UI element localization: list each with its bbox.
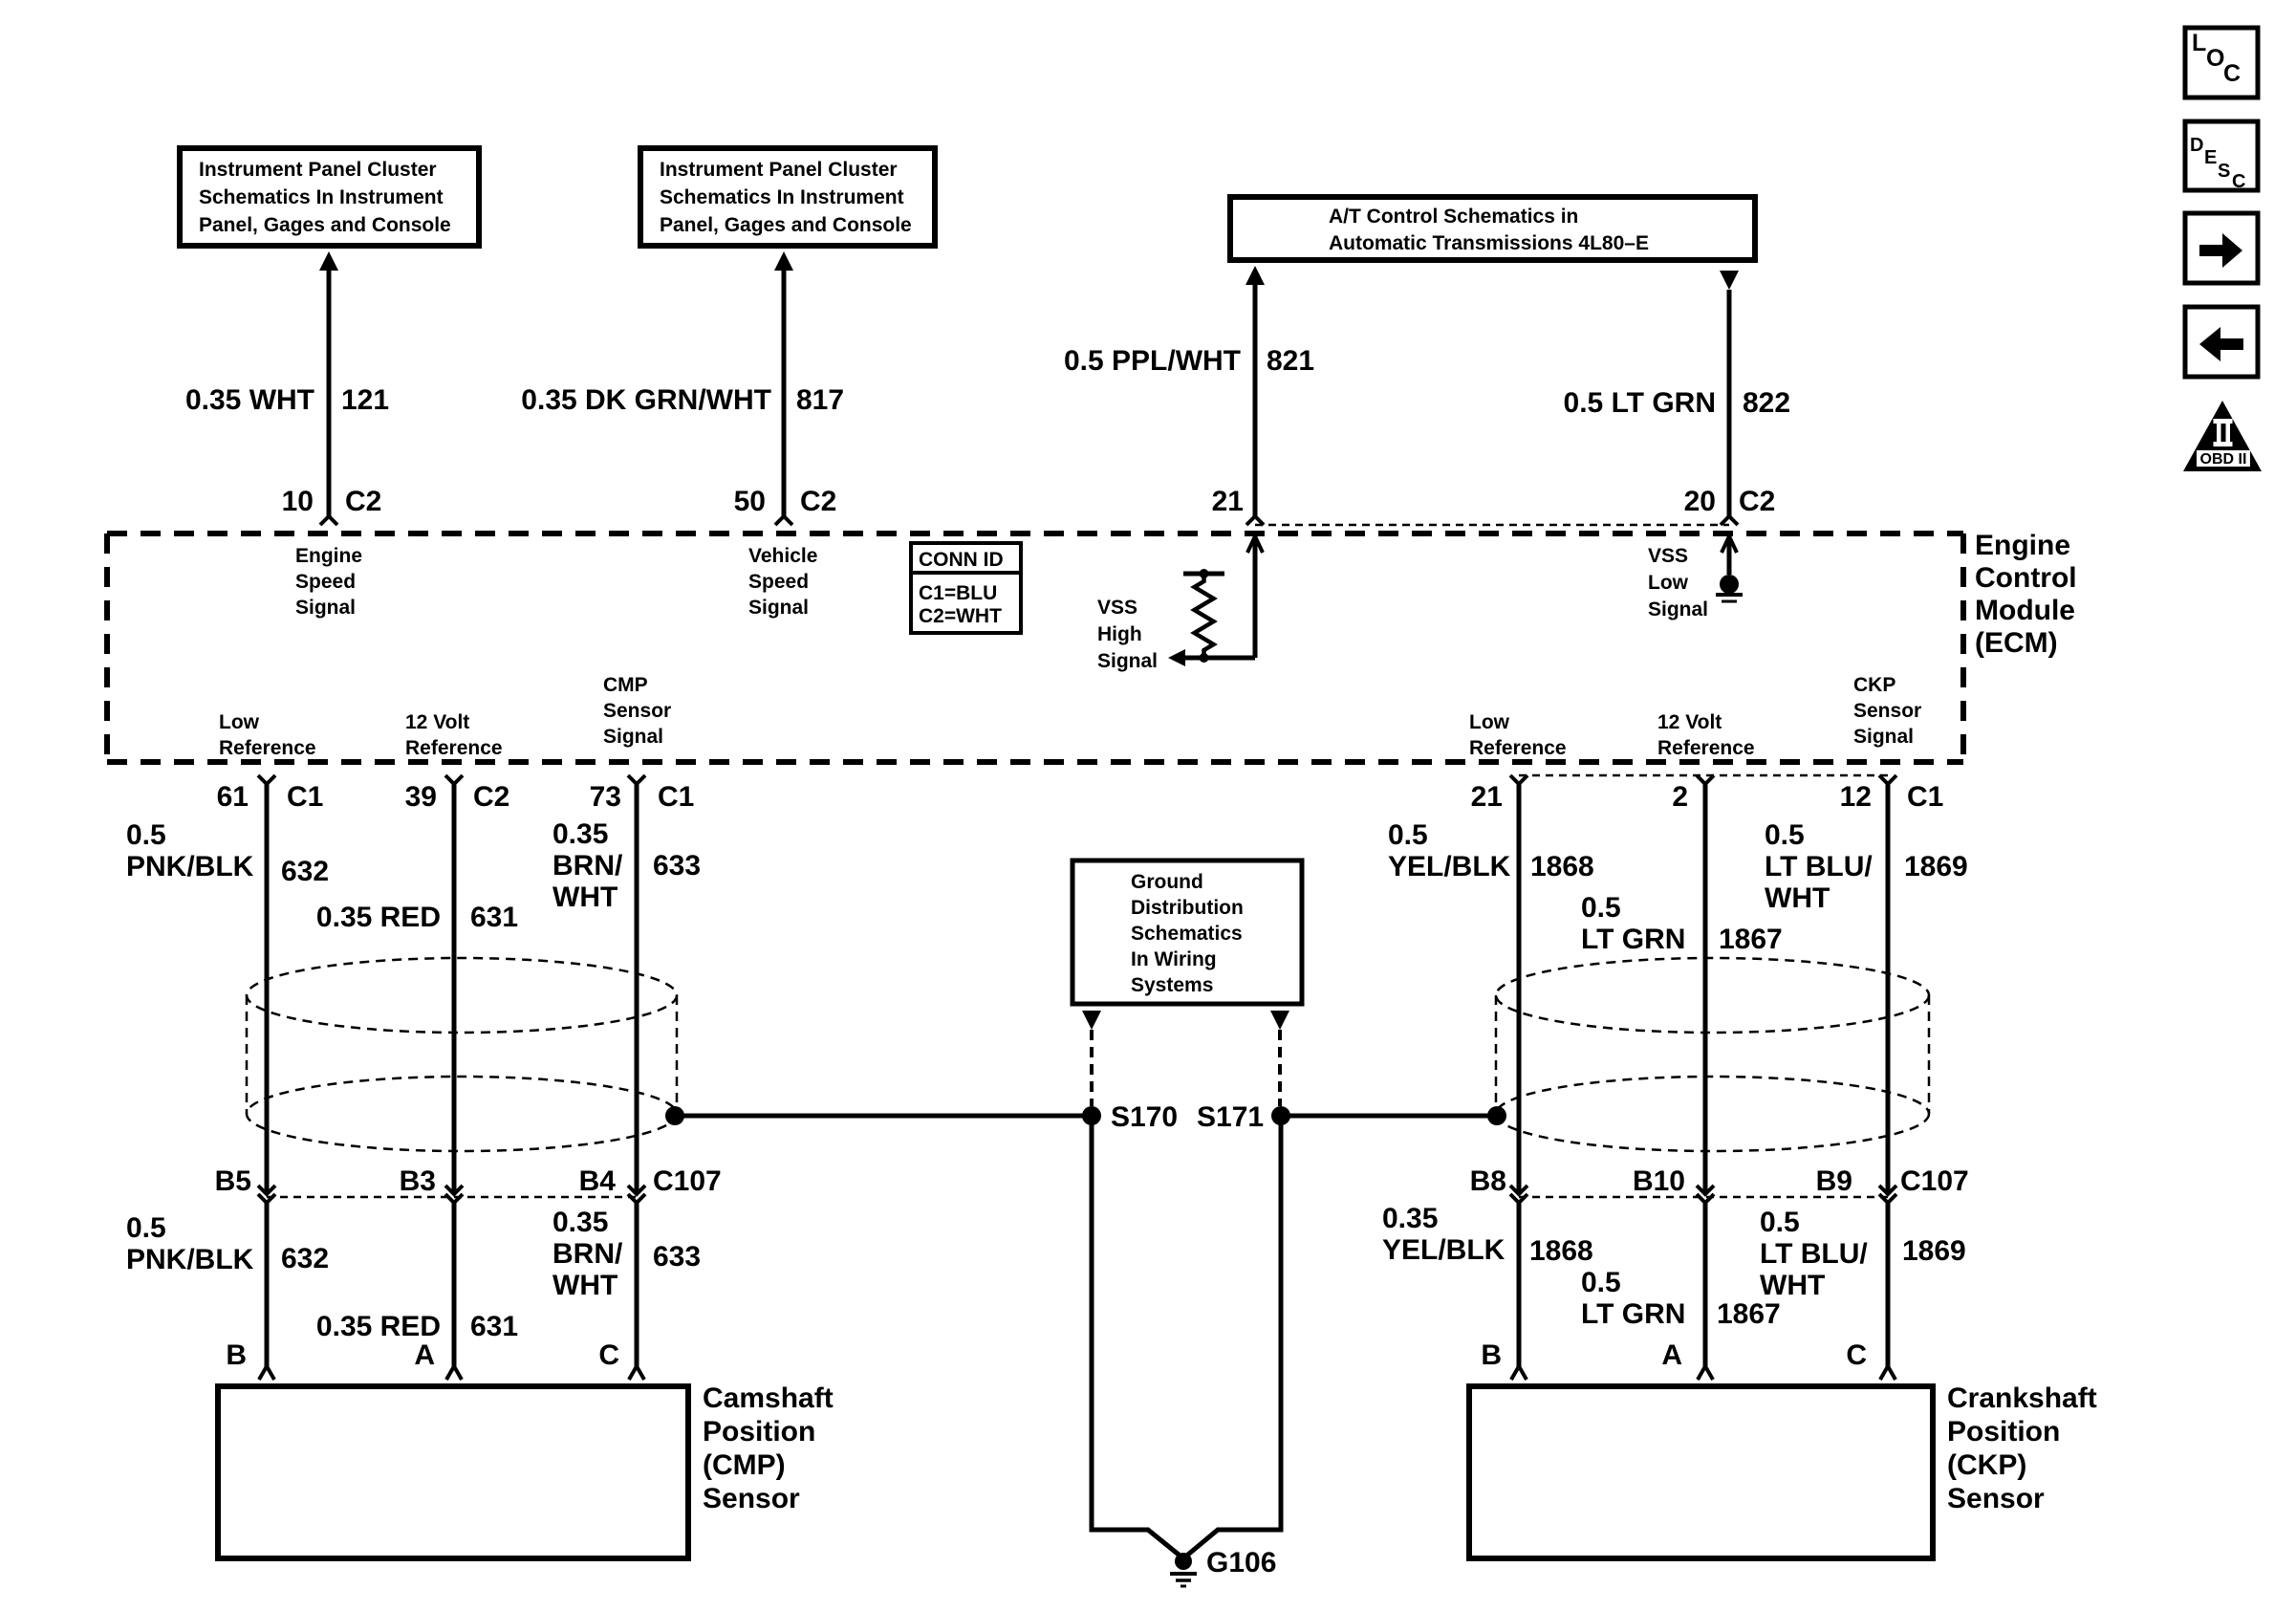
svg-text:LT BLU/: LT BLU/ xyxy=(1765,851,1873,882)
label VSS High Signal xyxy=(1097,597,1158,672)
pin C1 label (61) xyxy=(287,781,323,813)
label 1868 (upper) xyxy=(1530,851,1594,882)
svg-text:0.35: 0.35 xyxy=(552,818,608,850)
wire 1868 lower segment xyxy=(1517,1203,1522,1366)
svg-text:1868: 1868 xyxy=(1529,1235,1593,1267)
svg-text:0.35 RED: 0.35 RED xyxy=(316,1311,441,1342)
svg-text:Signal: Signal xyxy=(603,726,663,748)
icon box LOC xyxy=(2185,28,2258,98)
svg-text:Low: Low xyxy=(219,711,260,733)
svg-text:B9: B9 xyxy=(1816,1165,1852,1197)
svg-text:PNK/BLK: PNK/BLK xyxy=(126,851,254,882)
svg-text:C: C xyxy=(1846,1339,1867,1371)
svg-text:S171: S171 xyxy=(1197,1101,1264,1133)
connector chevron CKP wire 1867 xyxy=(1698,1366,1713,1380)
label 633 (lower) xyxy=(653,1241,701,1273)
wire 1869 upper segment xyxy=(1886,784,1891,1194)
connector chevron ECM bottom wire 633 xyxy=(628,775,645,784)
label 817 xyxy=(796,384,844,416)
svg-text:VSS: VSS xyxy=(1648,545,1688,567)
pin C2 label (wire 817) xyxy=(800,486,836,517)
svg-text:817: 817 xyxy=(796,384,844,416)
svg-text:WHT: WHT xyxy=(552,1270,617,1301)
svg-text:Signal: Signal xyxy=(748,597,809,619)
label G106 xyxy=(1206,1547,1276,1578)
svg-text:Reference: Reference xyxy=(219,737,316,759)
label 1867 (lower) xyxy=(1717,1298,1781,1330)
svg-text:12 Volt: 12 Volt xyxy=(405,711,469,733)
label 0.35 RED (lower) xyxy=(316,1311,441,1342)
svg-text:10: 10 xyxy=(282,486,314,517)
svg-text:E: E xyxy=(2204,147,2217,168)
wire 1867 lower segment xyxy=(1703,1203,1708,1366)
dashed connector line C107 (left) xyxy=(267,1196,637,1199)
wire 1867 upper segment xyxy=(1703,784,1708,1194)
svg-text:(CMP): (CMP) xyxy=(703,1449,786,1481)
label S171 xyxy=(1197,1101,1264,1133)
svg-text:50: 50 xyxy=(734,486,766,517)
svg-text:0.5 PPL/WHT: 0.5 PPL/WHT xyxy=(1064,345,1241,377)
connector chevron ECM bottom wire 1868 xyxy=(1510,775,1527,784)
junction dot left cylinder xyxy=(665,1106,684,1125)
svg-text:CONN ID: CONN ID xyxy=(919,549,1004,571)
connector chevron CKP wire 1868 xyxy=(1511,1366,1527,1380)
svg-text:1867: 1867 xyxy=(1719,924,1783,955)
label CMP Sensor Signal xyxy=(603,674,671,748)
svg-text:OBD II: OBD II xyxy=(2200,451,2247,468)
wire 633 lower segment xyxy=(635,1203,639,1366)
svg-text:B8: B8 xyxy=(1470,1165,1506,1197)
ground G106 symbol xyxy=(1170,1553,1197,1586)
svg-text:Automatic Transmissions 4L80–E: Automatic Transmissions 4L80–E xyxy=(1329,232,1649,254)
svg-text:Signal: Signal xyxy=(1648,599,1708,620)
svg-text:B3: B3 xyxy=(400,1165,436,1197)
arrow to ground dist box (left) xyxy=(1082,1011,1101,1030)
label 0.5 PNK/BLK (upper) xyxy=(126,819,254,882)
arrow to ground dist box (right) xyxy=(1270,1011,1289,1030)
connector chevron CMP wire 631 xyxy=(446,1366,462,1380)
dashed wire S171 to box xyxy=(1278,1030,1282,1106)
label Camshaft Position (CMP) Sensor xyxy=(703,1382,834,1514)
svg-text:2: 2 xyxy=(1672,781,1688,813)
svg-text:BRN/: BRN/ xyxy=(552,1238,623,1270)
svg-text:High: High xyxy=(1097,623,1142,645)
label 0.5 LT BLU/WHT (lower) xyxy=(1760,1207,1868,1301)
label 0.5 LT GRN (upper) xyxy=(1581,892,1685,955)
wire S170 to G106 xyxy=(1092,1116,1183,1558)
svg-text:0.5: 0.5 xyxy=(1581,892,1621,924)
icon OBD II triangle xyxy=(2183,401,2262,471)
label Engine Speed Signal xyxy=(295,545,362,619)
connector C107 chevrons wire 1867 xyxy=(1697,1186,1714,1203)
svg-text:Engine: Engine xyxy=(1975,530,2070,561)
dashed wire S170 to box xyxy=(1090,1030,1094,1106)
label 1867 (upper) xyxy=(1719,924,1783,955)
svg-text:0.35: 0.35 xyxy=(552,1207,608,1238)
box A/T Control Schematics xyxy=(1230,197,1755,260)
CONN ID box xyxy=(911,543,1021,633)
pin 61 label xyxy=(217,781,249,813)
svg-text:Panel, Gages and Console: Panel, Gages and Console xyxy=(199,214,451,236)
wire 1868 upper segment xyxy=(1517,784,1522,1194)
svg-text:C107: C107 xyxy=(1900,1165,1969,1197)
wire 822 (0.5 LT GRN) xyxy=(1727,290,1732,516)
svg-text:C1: C1 xyxy=(287,781,323,813)
label 0.5 PNK/BLK (lower) xyxy=(126,1212,254,1275)
label Low Reference (right) xyxy=(1469,711,1567,759)
svg-text:BRN/: BRN/ xyxy=(552,850,623,882)
pin C2 label (wire 121) xyxy=(345,486,381,517)
svg-text:(CKP): (CKP) xyxy=(1947,1449,2026,1481)
wire 633 upper segment xyxy=(635,784,639,1194)
shield cylinder left xyxy=(247,958,677,1151)
internal wire pin 21 xyxy=(1185,536,1263,658)
wire S171 to right cylinder xyxy=(1281,1114,1497,1119)
svg-text:Position: Position xyxy=(1947,1416,2060,1448)
svg-text:12: 12 xyxy=(1840,781,1872,813)
svg-text:Ground: Ground xyxy=(1131,871,1203,893)
label C107 (right) xyxy=(1900,1165,1969,1197)
wire 631 upper segment xyxy=(452,784,457,1194)
svg-text:WHT: WHT xyxy=(1760,1270,1825,1301)
label C107 (left) xyxy=(653,1165,722,1197)
splice S171 dot xyxy=(1271,1106,1290,1125)
label 631 (lower) xyxy=(470,1311,518,1342)
label 632 (lower) xyxy=(281,1243,329,1274)
ECM label xyxy=(1975,530,2077,659)
pin C label (CKP) xyxy=(1846,1339,1867,1371)
svg-text:B10: B10 xyxy=(1633,1165,1685,1197)
pin 50 label xyxy=(734,486,766,517)
svg-text:631: 631 xyxy=(470,902,518,933)
svg-text:Module: Module xyxy=(1975,595,2075,626)
connector chevron pin 20 xyxy=(1721,516,1738,525)
svg-text:631: 631 xyxy=(470,1311,518,1342)
box CKP sensor xyxy=(1469,1386,1933,1558)
pin 39 label xyxy=(405,781,437,813)
dashed connector line C107 (right) xyxy=(1519,1196,1888,1199)
svg-text:Sensor: Sensor xyxy=(703,1483,800,1514)
svg-text:Reference: Reference xyxy=(1657,737,1755,759)
svg-text:Signal: Signal xyxy=(1097,650,1158,672)
pin 21 label (bottom) xyxy=(1471,781,1503,813)
connector chevron CMP wire 632 xyxy=(259,1366,274,1380)
svg-text:VSS: VSS xyxy=(1097,597,1137,619)
svg-text:61: 61 xyxy=(217,781,249,813)
svg-text:YEL/BLK: YEL/BLK xyxy=(1388,851,1511,882)
svg-text:0.5 LT GRN: 0.5 LT GRN xyxy=(1564,387,1716,419)
wire left cylinder to S170 xyxy=(675,1114,1092,1119)
svg-text:A/T Control Schematics in: A/T Control Schematics in xyxy=(1329,206,1578,228)
pin 12 label xyxy=(1840,781,1872,813)
svg-text:Vehicle: Vehicle xyxy=(748,545,817,567)
svg-text:39: 39 xyxy=(405,781,437,813)
svg-text:C2: C2 xyxy=(473,781,509,813)
svg-text:21: 21 xyxy=(1212,486,1244,517)
box Ground Distribution Schematics xyxy=(1072,860,1302,1004)
label 1869 (upper) xyxy=(1904,851,1968,882)
label 0.35 BRN/WHT (lower) xyxy=(552,1207,623,1301)
svg-text:632: 632 xyxy=(281,1243,329,1274)
svg-text:C: C xyxy=(598,1339,619,1371)
pin C2 label (wire 822) xyxy=(1739,486,1775,517)
svg-text:Reference: Reference xyxy=(1469,737,1567,759)
svg-text:Sensor: Sensor xyxy=(1853,700,1921,722)
svg-text:CMP: CMP xyxy=(603,674,648,696)
arrow into left IPC box xyxy=(319,251,338,271)
junction dot right cylinder xyxy=(1487,1106,1506,1125)
label 12 Volt Reference (right) xyxy=(1657,711,1755,759)
svg-text:Camshaft: Camshaft xyxy=(703,1382,834,1414)
label B10 xyxy=(1633,1165,1685,1197)
arrow from A/T box down xyxy=(1720,271,1739,290)
svg-text:L: L xyxy=(2192,30,2206,56)
label 1869 (lower) xyxy=(1902,1235,1966,1267)
internal wire pin 20 xyxy=(1722,536,1737,575)
svg-text:B5: B5 xyxy=(215,1165,251,1197)
svg-text:Crankshaft: Crankshaft xyxy=(1947,1382,2097,1414)
pin 73 label xyxy=(590,781,621,813)
pin B label (CMP) xyxy=(226,1339,247,1371)
svg-text:0.35 RED: 0.35 RED xyxy=(316,902,441,933)
dashed connector line C1 xyxy=(1519,774,1888,777)
arrow into A/T box xyxy=(1245,266,1265,285)
svg-text:0.5: 0.5 xyxy=(1581,1267,1621,1298)
pin 20 label xyxy=(1684,486,1716,517)
svg-text:B: B xyxy=(1481,1339,1502,1371)
svg-text:0.5: 0.5 xyxy=(1765,819,1805,851)
label 0.35 RED (upper) xyxy=(316,902,441,933)
svg-text:In Wiring: In Wiring xyxy=(1131,948,1217,970)
svg-text:12 Volt: 12 Volt xyxy=(1657,711,1722,733)
label 0.5 PPL/WHT xyxy=(1064,345,1241,377)
icon box right-arrow xyxy=(2185,213,2258,283)
svg-text:Engine: Engine xyxy=(295,545,362,567)
svg-text:0.5: 0.5 xyxy=(1760,1207,1800,1238)
box CMP sensor xyxy=(218,1386,688,1558)
svg-text:C107: C107 xyxy=(653,1165,722,1197)
label 121 xyxy=(341,384,389,416)
label B9 xyxy=(1816,1165,1852,1197)
label B4 xyxy=(579,1165,617,1197)
connector chevron pin 21 xyxy=(1246,516,1264,525)
label B5 xyxy=(215,1165,251,1197)
svg-text:A: A xyxy=(1661,1339,1682,1371)
svg-text:LT GRN: LT GRN xyxy=(1581,1298,1685,1330)
pin C label (CMP) xyxy=(598,1339,619,1371)
label B3 xyxy=(400,1165,436,1197)
pin C1 label (73) xyxy=(658,781,694,813)
wire 1869 lower segment xyxy=(1886,1203,1891,1366)
icon box left-arrow xyxy=(2185,307,2258,377)
svg-text:Sensor: Sensor xyxy=(1947,1483,2045,1514)
svg-text:G106: G106 xyxy=(1206,1547,1276,1578)
svg-text:Reference: Reference xyxy=(405,737,503,759)
connector chevron pin 10 xyxy=(320,516,337,525)
label 0.35 YEL/BLK (lower) xyxy=(1382,1203,1505,1266)
label 631 (upper) xyxy=(470,902,518,933)
ECM module dashed box xyxy=(107,533,1963,762)
svg-text:Schematics In Instrument: Schematics In Instrument xyxy=(660,186,904,208)
svg-text:B: B xyxy=(226,1339,247,1371)
connector chevron ECM bottom wire 1867 xyxy=(1697,775,1714,784)
svg-text:Signal: Signal xyxy=(1853,726,1914,748)
label B8 xyxy=(1470,1165,1506,1197)
svg-text:0.35: 0.35 xyxy=(1382,1203,1438,1234)
pin 21 label (top) xyxy=(1212,486,1244,517)
svg-text:Signal: Signal xyxy=(295,597,356,619)
svg-text:C2: C2 xyxy=(800,486,836,517)
svg-text:Speed: Speed xyxy=(748,571,809,593)
internal arrow to VSS High xyxy=(1168,649,1185,666)
svg-text:PNK/BLK: PNK/BLK xyxy=(126,1244,254,1275)
pin C2 label (39) xyxy=(473,781,509,813)
svg-text:0.5: 0.5 xyxy=(126,1212,166,1244)
label 633 (upper) xyxy=(653,850,701,882)
connector chevron ECM bottom wire 1869 xyxy=(1879,775,1896,784)
svg-text:Speed: Speed xyxy=(295,571,356,593)
svg-text:633: 633 xyxy=(653,1241,701,1273)
wire 632 upper segment xyxy=(265,784,270,1194)
connector chevron ECM bottom wire 632 xyxy=(258,775,275,784)
wire 817 (0.35 DK GRN/WHT) xyxy=(782,271,787,516)
label 0.5 YEL/BLK (upper) xyxy=(1388,819,1511,882)
svg-text:A: A xyxy=(414,1339,435,1371)
connector C107 chevrons wire 631 xyxy=(445,1186,463,1203)
svg-text:Systems: Systems xyxy=(1131,974,1213,996)
svg-text:S: S xyxy=(2218,161,2230,182)
pin B label (CKP) xyxy=(1481,1339,1502,1371)
svg-text:WHT: WHT xyxy=(552,882,617,913)
resistor VSS xyxy=(1183,569,1224,663)
svg-text:C1: C1 xyxy=(658,781,694,813)
svg-text:73: 73 xyxy=(590,781,621,813)
pin A label (CMP) xyxy=(414,1339,435,1371)
svg-text:Panel, Gages and Console: Panel, Gages and Console xyxy=(660,214,912,236)
arrow into second IPC box xyxy=(774,251,793,271)
svg-text:D: D xyxy=(2190,135,2203,156)
svg-text:1867: 1867 xyxy=(1717,1298,1781,1330)
connector chevron CKP wire 1869 xyxy=(1880,1366,1895,1380)
connector chevron CMP wire 633 xyxy=(629,1366,644,1380)
wire 821 (0.5 PPL/WHT) xyxy=(1253,285,1258,516)
svg-text:C2: C2 xyxy=(1739,486,1775,517)
label 1868 (lower) xyxy=(1529,1235,1593,1267)
label 632 (upper) xyxy=(281,856,329,887)
svg-text:1869: 1869 xyxy=(1902,1235,1966,1267)
svg-text:Schematics In Instrument: Schematics In Instrument xyxy=(199,186,444,208)
splice S170 dot xyxy=(1082,1106,1101,1125)
label 12 Volt Reference (left) xyxy=(405,711,503,759)
label 822 xyxy=(1743,387,1790,419)
shield cylinder right xyxy=(1496,958,1929,1151)
svg-text:1869: 1869 xyxy=(1904,851,1968,882)
dashed connector line C2 (top) xyxy=(1255,524,1729,527)
svg-text:LT GRN: LT GRN xyxy=(1581,924,1685,955)
svg-text:21: 21 xyxy=(1471,781,1503,813)
svg-text:0.5: 0.5 xyxy=(126,819,166,851)
wire 632 lower segment xyxy=(265,1203,270,1366)
connector C107 chevrons wire 1869 xyxy=(1879,1186,1896,1203)
pin 10 label xyxy=(282,486,314,517)
svg-text:20: 20 xyxy=(1684,486,1716,517)
box Instrument Panel Cluster (left) xyxy=(180,148,479,246)
svg-text:Distribution: Distribution xyxy=(1131,897,1244,919)
svg-text:O: O xyxy=(2206,45,2224,72)
svg-text:Schematics: Schematics xyxy=(1131,923,1243,945)
connector C107 chevrons wire 1868 xyxy=(1510,1186,1527,1203)
svg-text:YEL/BLK: YEL/BLK xyxy=(1382,1234,1505,1266)
wire 121 (0.35 WHT) xyxy=(327,271,332,516)
label 0.35 WHT xyxy=(185,384,314,416)
svg-text:C2=WHT: C2=WHT xyxy=(919,605,1002,627)
box Instrument Panel Cluster (second) xyxy=(640,148,935,246)
label Low Reference (left) xyxy=(219,711,316,759)
label Crankshaft Position (CKP) Sensor xyxy=(1947,1382,2097,1514)
label 0.5 LT GRN (lower) xyxy=(1581,1267,1685,1330)
svg-text:C: C xyxy=(2223,60,2241,87)
svg-text:822: 822 xyxy=(1743,387,1790,419)
svg-text:C: C xyxy=(2232,171,2245,192)
pin C1 label (12) xyxy=(1907,781,1943,813)
svg-text:Low: Low xyxy=(1469,711,1510,733)
wire S171 to G106 xyxy=(1183,1116,1281,1558)
svg-text:(ECM): (ECM) xyxy=(1975,627,2058,659)
icon box DESC xyxy=(2185,121,2258,192)
svg-text:0.35 WHT: 0.35 WHT xyxy=(185,384,314,416)
svg-text:0.35 DK GRN/WHT: 0.35 DK GRN/WHT xyxy=(521,384,771,416)
label 0.35 BRN/WHT (upper) xyxy=(552,818,623,913)
label 0.35 DK GRN/WHT xyxy=(521,384,771,416)
svg-text:CKP: CKP xyxy=(1853,674,1895,696)
svg-text:Instrument Panel Cluster: Instrument Panel Cluster xyxy=(660,159,898,181)
svg-text:1868: 1868 xyxy=(1530,851,1594,882)
connector chevron ECM bottom wire 631 xyxy=(445,775,463,784)
svg-text:Control: Control xyxy=(1975,562,2077,594)
svg-text:0.5: 0.5 xyxy=(1388,819,1428,851)
svg-text:633: 633 xyxy=(653,850,701,882)
connector C107 chevrons wire 632 xyxy=(258,1186,275,1203)
label 821 xyxy=(1267,345,1314,377)
svg-text:WHT: WHT xyxy=(1765,882,1830,914)
svg-text:LT BLU/: LT BLU/ xyxy=(1760,1238,1868,1270)
svg-text:Low: Low xyxy=(1648,572,1689,594)
internal ground VSS Low xyxy=(1716,575,1743,601)
connector C107 chevrons wire 633 xyxy=(628,1186,645,1203)
pin 2 label xyxy=(1672,781,1688,813)
svg-text:Position: Position xyxy=(703,1416,815,1448)
svg-text:Sensor: Sensor xyxy=(603,700,671,722)
svg-text:821: 821 xyxy=(1267,345,1314,377)
svg-text:121: 121 xyxy=(341,384,389,416)
label Vehicle Speed Signal xyxy=(748,545,817,619)
label CKP Sensor Signal xyxy=(1853,674,1921,748)
svg-text:C2: C2 xyxy=(345,486,381,517)
svg-text:S170: S170 xyxy=(1111,1101,1178,1133)
label VSS Low Signal xyxy=(1648,545,1708,620)
svg-text:C1=BLU: C1=BLU xyxy=(919,582,997,604)
svg-text:C1: C1 xyxy=(1907,781,1943,813)
label 0.5 LT GRN xyxy=(1564,387,1716,419)
svg-text:Instrument Panel Cluster: Instrument Panel Cluster xyxy=(199,159,437,181)
label 0.5 LT BLU/WHT (upper) xyxy=(1765,819,1873,914)
label S170 xyxy=(1111,1101,1178,1133)
connector chevron pin 50 xyxy=(775,516,792,525)
wire 631 lower segment xyxy=(452,1203,457,1366)
pin A label (CKP) xyxy=(1661,1339,1682,1371)
svg-text:B4: B4 xyxy=(579,1165,617,1197)
svg-text:632: 632 xyxy=(281,856,329,887)
